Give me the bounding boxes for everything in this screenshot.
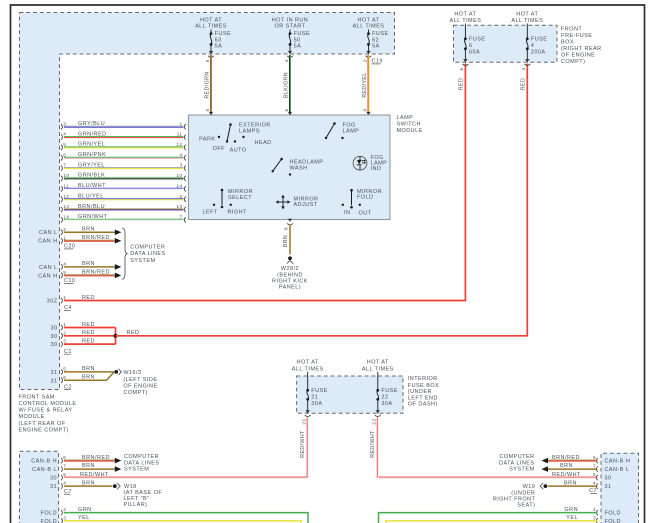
svg-text:LAMPS: LAMPS: [239, 129, 260, 135]
svg-text:SELECT: SELECT: [228, 195, 252, 201]
svg-text:ADJUST: ADJUST: [294, 202, 318, 208]
svg-text:OR START: OR START: [275, 24, 306, 30]
svg-text:4: 4: [521, 67, 526, 70]
wire BRN/RED CAN-B H pin 6 (left): [31, 455, 121, 465]
svg-text:11: 11: [177, 132, 183, 137]
svg-text:7: 7: [63, 464, 66, 469]
svg-text:CAN-B L: CAN-B L: [605, 467, 630, 473]
module FRONT SAM control module w/ fuse & relay module (dashed box): [20, 13, 395, 390]
svg-text:6: 6: [63, 375, 66, 380]
module U1 lamp switch module: [189, 115, 391, 220]
svg-text:RED: RED: [520, 78, 526, 90]
svg-text:BRN: BRN: [82, 227, 95, 233]
ground W19: [493, 483, 547, 509]
module left body control (dashed, bottom left): [20, 451, 59, 523]
pin 22 interior fuse box output connector: [372, 415, 381, 424]
wire BRN circuit 31 pin 4 to ground W18: [50, 480, 112, 490]
fuse 50 (5A) in SAM strip: [272, 18, 310, 54]
svg-text:OF DASH): OF DASH): [408, 401, 438, 407]
wire RED circuit 30 pin 3: [50, 338, 115, 348]
svg-text:5: 5: [205, 108, 210, 111]
svg-text:30A: 30A: [381, 401, 392, 407]
svg-text:COMPT): COMPT): [123, 390, 147, 396]
svg-text:31: 31: [50, 378, 57, 384]
svg-text:6: 6: [459, 67, 464, 70]
svg-text:5A: 5A: [372, 44, 380, 50]
svg-text:W16/3: W16/3: [123, 370, 141, 376]
svg-text:(RIGHT REAR: (RIGHT REAR: [561, 46, 602, 52]
wire GRN FOLD pin 4 (left): [41, 507, 308, 523]
svg-text:8: 8: [284, 227, 289, 230]
svg-text:6: 6: [284, 108, 289, 111]
svg-text:6: 6: [63, 152, 66, 157]
svg-text:60A: 60A: [469, 49, 480, 55]
svg-text:FUSE: FUSE: [294, 31, 310, 37]
wire GRN FOLD pin 4 (right): [379, 507, 621, 523]
pin 21 interior fuse box output connector: [302, 415, 311, 424]
svg-text:21: 21: [302, 418, 307, 424]
wire GRN/YEL SAM pin 5 to lamp switch module pin 12: [61, 142, 186, 150]
svg-text:COMPUTER: COMPUTER: [130, 245, 165, 251]
wire RED/GRN from SAM fuse to lamp switch module: [204, 55, 211, 115]
svg-text:63: 63: [215, 37, 222, 43]
wire GRN/RED SAM pin 4 to lamp switch module pin 11: [61, 131, 186, 139]
svg-text:BRN: BRN: [560, 463, 573, 469]
fuse 4 (200A) front pre-fuse box: [511, 11, 547, 62]
svg-text:MODULE: MODULE: [19, 414, 45, 420]
connector C7 label (left): [64, 489, 72, 495]
svg-text:4: 4: [531, 43, 535, 49]
svg-text:RED/WHT: RED/WHT: [80, 472, 109, 478]
pin 9 lamp switch module top entry: [362, 108, 370, 115]
svg-text:FUSE: FUSE: [215, 31, 231, 37]
pin 5 lamp switch module top entry: [205, 108, 213, 115]
wire BRN lamp switch module to ground W28/2: [283, 225, 290, 255]
svg-text:BRN: BRN: [283, 235, 289, 247]
switch HEADLAMP WASH: [272, 158, 324, 176]
label COMPUTER DATA LINES SYSTEM (bottom left): [124, 454, 159, 472]
wire BRN circuit 31 pin 6 to ground W16/3: [50, 372, 113, 384]
svg-text:ALL TIMES: ALL TIMES: [353, 24, 385, 30]
svg-text:5: 5: [63, 367, 66, 372]
svg-text:W/ FUSE & RELAY: W/ FUSE & RELAY: [19, 408, 73, 414]
wire GRY/YEL SAM pin 7 to lamp switch module pin 3: [61, 162, 186, 170]
svg-text:SYSTEM: SYSTEM: [509, 466, 534, 472]
svg-text:FOLD: FOLD: [605, 511, 621, 517]
svg-text:OF ENGINE: OF ENGINE: [561, 52, 595, 58]
indicator FOG LAMP IND (LED): [353, 155, 387, 172]
ground W28/2: [272, 256, 308, 290]
svg-text:GRN/PNK: GRN/PNK: [78, 152, 106, 158]
wire BRN CAN L pin 4: [39, 261, 121, 271]
wire RED circuit 30 to front pre-fuse box fuse 4: [116, 64, 528, 337]
svg-text:COMPUTER: COMPUTER: [124, 454, 159, 460]
svg-text:CAN H: CAN H: [38, 239, 57, 245]
svg-text:CAN-B L: CAN-B L: [32, 467, 57, 473]
svg-text:FOG: FOG: [343, 122, 356, 128]
svg-text:10: 10: [176, 173, 182, 178]
svg-text:3: 3: [63, 516, 66, 521]
svg-text:12: 12: [63, 194, 69, 199]
svg-text:21: 21: [311, 394, 318, 400]
svg-text:6: 6: [593, 455, 596, 460]
svg-text:1: 1: [63, 235, 66, 240]
switch FOG LAMP: [325, 122, 359, 139]
svg-text:BRN/BLU: BRN/BLU: [78, 204, 105, 210]
svg-text:11: 11: [63, 183, 69, 188]
wire BRN CAN L pin 2: [39, 227, 121, 237]
fuse 63 (5A) in SAM strip: [195, 18, 231, 54]
svg-text:3: 3: [179, 163, 182, 168]
svg-text:CAN-B H: CAN-B H: [605, 459, 631, 465]
fuse 62 (5A) in SAM strip: [353, 18, 389, 54]
svg-text:5: 5: [63, 142, 66, 147]
junction node 30: [113, 334, 117, 338]
svg-text:INTERIOR: INTERIOR: [408, 376, 438, 382]
pin 8 lamp switch module ground output: [284, 219, 293, 230]
wire BRN CAN-B L pin 7 (right): [542, 463, 630, 473]
svg-text:BRN/RED: BRN/RED: [82, 270, 110, 276]
wire BRN circuit 31 pin 4 to ground W19: [548, 480, 612, 490]
fuse 22 (30A) interior fuse box: [362, 360, 398, 414]
svg-text:HOT IN RUN: HOT IN RUN: [272, 18, 308, 24]
svg-text:30: 30: [50, 476, 57, 482]
svg-text:HEAD: HEAD: [255, 140, 272, 146]
wire RED/YEL from SAM fuse to lamp switch module: [362, 55, 369, 115]
svg-text:BRN/RED: BRN/RED: [82, 455, 110, 461]
svg-text:5A: 5A: [294, 44, 302, 50]
svg-text:FUSE: FUSE: [469, 36, 485, 42]
svg-text:GRN/RED: GRN/RED: [78, 131, 107, 137]
svg-text:PRE-FUSE: PRE-FUSE: [561, 33, 592, 39]
svg-text:BLK/GRN: BLK/GRN: [283, 72, 289, 98]
svg-text:RIGHT: RIGHT: [228, 210, 248, 216]
svg-text:BLU/YEL: BLU/YEL: [78, 194, 104, 200]
pin 6 lamp switch module top entry: [284, 108, 292, 115]
svg-text:PARK: PARK: [199, 137, 215, 143]
svg-text:(LEFT REAR OF: (LEFT REAR OF: [19, 421, 66, 427]
svg-text:OF ENGINE: OF ENGINE: [123, 383, 157, 389]
svg-text:BLU/WHT: BLU/WHT: [78, 183, 106, 189]
label FRONT PRE-FUSE BOX: [561, 26, 602, 65]
svg-text:RED/GRN: RED/GRN: [204, 71, 210, 98]
svg-text:RED/YEL: RED/YEL: [362, 72, 368, 97]
svg-text:5: 5: [63, 472, 66, 477]
connector C2 label: [64, 384, 72, 390]
svg-text:2: 2: [63, 227, 66, 232]
svg-text:FUSE: FUSE: [311, 388, 327, 394]
svg-text:RIGHT FRONT: RIGHT FRONT: [493, 497, 536, 503]
svg-text:62: 62: [372, 37, 379, 43]
svg-text:FRONT: FRONT: [561, 26, 582, 32]
pin 5 SAM fuse 63 output connector: [205, 56, 214, 62]
svg-text:FRONT SAM: FRONT SAM: [19, 394, 55, 400]
svg-text:12: 12: [176, 142, 182, 147]
label FRONT SAM CONTROL MODULE: [19, 394, 77, 433]
wire YEL FOLD pin 3 (left): [41, 515, 301, 523]
svg-text:HOT AT: HOT AT: [454, 11, 476, 17]
label INTERIOR FUSE BOX: [408, 376, 439, 407]
svg-text:GRN/YEL: GRN/YEL: [78, 142, 105, 148]
label LAMP SWITCH MODULE: [397, 115, 423, 134]
wire BRN/RED CAN H pin 5: [38, 270, 121, 280]
svg-text:CAN L: CAN L: [39, 265, 57, 271]
wire RED/WHT from fuse 22 to right body module pin 30: [370, 418, 597, 479]
svg-text:6: 6: [469, 43, 473, 49]
pin 4 pre-fuse box output connector: [521, 64, 530, 70]
svg-text:30A: 30A: [311, 401, 322, 407]
svg-text:4: 4: [284, 59, 289, 62]
svg-text:30: 30: [50, 342, 57, 348]
svg-text:BOX: BOX: [561, 39, 574, 45]
svg-text:3: 3: [63, 339, 66, 344]
svg-text:4: 4: [179, 152, 182, 157]
svg-text:FUSE: FUSE: [531, 36, 547, 42]
ground W16/3: [114, 369, 157, 396]
switch MIRROR SELECT (LEFT/RIGHT): [203, 189, 254, 216]
wire GRY/BLU SAM pin 3 to lamp switch module pin 1: [61, 121, 186, 129]
connector C4 label: [64, 305, 72, 311]
svg-text:DATA LINES: DATA LINES: [130, 251, 165, 257]
svg-text:COMPT): COMPT): [561, 59, 585, 65]
svg-text:ALL TIMES: ALL TIMES: [449, 18, 481, 24]
module interior fuse box (dashed): [297, 376, 403, 413]
svg-text:5: 5: [205, 59, 210, 62]
wire BLK/GRN from SAM fuse to lamp switch module: [283, 55, 290, 115]
svg-text:HOT AT: HOT AT: [297, 360, 319, 366]
svg-text:CAN-B H: CAN-B H: [31, 459, 57, 465]
svg-text:CONTROL MODULE: CONTROL MODULE: [19, 401, 77, 407]
module front pre-fuse box (dashed): [454, 25, 558, 62]
svg-text:5A: 5A: [215, 44, 223, 50]
wire GRN/PNK SAM pin 6 to lamp switch module pin 4: [61, 152, 186, 160]
svg-text:ALL TIMES: ALL TIMES: [292, 366, 324, 372]
svg-text:FOLD: FOLD: [41, 511, 57, 517]
label COMPUTER DATA LINES SYSTEM (bottom right): [499, 454, 534, 472]
wire BRN CAN-B L pin 7 (left): [32, 463, 121, 473]
wire RED circuit 30Z pin 1 from SAM to front pre-fuse box fuse 6: [47, 64, 466, 305]
svg-text:LAMP: LAMP: [343, 129, 360, 135]
svg-text:BRN: BRN: [82, 463, 95, 469]
module right body control (dashed, bottom right): [601, 453, 639, 523]
wire GRN/WHT SAM pin 14 to lamp switch module pin 7: [61, 214, 186, 222]
brace computer data lines system: [122, 228, 128, 279]
svg-text:4: 4: [593, 507, 596, 512]
svg-text:2: 2: [63, 330, 66, 335]
wire RED/WHT from fuse 21 to left body module pin 30: [64, 418, 308, 479]
svg-text:PANEL): PANEL): [279, 284, 301, 290]
wire junction 30 bus: [115, 328, 117, 345]
svg-text:RED/WHT: RED/WHT: [300, 430, 306, 458]
svg-text:BRN/RED: BRN/RED: [82, 235, 110, 241]
svg-text:PILLAR): PILLAR): [124, 502, 148, 508]
svg-text:31: 31: [50, 370, 57, 376]
svg-text:COMPUTER: COMPUTER: [499, 454, 534, 460]
svg-text:FUSE BOX: FUSE BOX: [408, 383, 439, 389]
svg-text:IN: IN: [344, 210, 350, 216]
svg-text:IND: IND: [371, 166, 382, 172]
wire BLU/WHT SAM pin 11 to lamp switch module pin 14: [61, 183, 186, 191]
svg-text:OUT: OUT: [359, 210, 372, 216]
connector C10 label: [64, 278, 75, 284]
svg-text:ALL TIMES: ALL TIMES: [511, 18, 543, 24]
svg-text:1: 1: [63, 322, 66, 327]
svg-text:10: 10: [63, 173, 69, 178]
svg-text:BRN/RED: BRN/RED: [552, 455, 580, 461]
wire BLU/YEL SAM pin 12 to lamp switch module pin 2: [61, 194, 186, 202]
svg-text:14: 14: [176, 183, 182, 188]
svg-text:13: 13: [63, 204, 69, 209]
svg-text:4: 4: [63, 507, 66, 512]
svg-text:LAMP: LAMP: [397, 115, 414, 121]
svg-text:FOLD: FOLD: [357, 195, 373, 201]
wire GRN/BLK SAM pin 10 to lamp switch module pin 10: [61, 173, 186, 181]
svg-text:BRN: BRN: [82, 480, 95, 486]
svg-text:HOT AT: HOT AT: [357, 18, 379, 24]
svg-text:LEFT END: LEFT END: [408, 395, 438, 401]
svg-text:1: 1: [63, 295, 66, 300]
svg-text:RED: RED: [458, 78, 464, 90]
svg-text:ENGINE COMPT): ENGINE COMPT): [19, 427, 69, 433]
svg-text:22: 22: [381, 394, 388, 400]
svg-text:OFF: OFF: [213, 146, 226, 152]
svg-text:31: 31: [605, 484, 612, 490]
label RED on fuse 6 wire: [458, 78, 464, 90]
svg-text:FUSE: FUSE: [381, 388, 397, 394]
svg-text:4: 4: [593, 481, 596, 486]
svg-text:5: 5: [63, 270, 66, 275]
fuse 6 (60A) front pre-fuse box: [449, 11, 485, 62]
fuse 21 (30A) interior fuse box: [292, 360, 328, 414]
svg-text:WASH: WASH: [290, 165, 308, 171]
svg-text:1: 1: [179, 121, 182, 126]
svg-text:BRN: BRN: [82, 261, 95, 267]
svg-text:30: 30: [50, 334, 57, 340]
svg-text:4: 4: [63, 262, 66, 267]
svg-text:MODULE: MODULE: [397, 128, 423, 134]
svg-text:FOLD: FOLD: [41, 519, 57, 523]
connector C7 label (right): [589, 488, 597, 494]
svg-text:GRN/WHT: GRN/WHT: [78, 214, 108, 220]
svg-text:30: 30: [50, 326, 57, 332]
switch MIRROR FOLD (IN/OUT): [342, 189, 382, 217]
svg-text:13: 13: [176, 204, 182, 209]
svg-text:3: 3: [63, 121, 66, 126]
svg-text:HOT AT: HOT AT: [367, 360, 389, 366]
wire RED circuit 30 pin 1: [50, 322, 115, 332]
svg-text:HOT AT: HOT AT: [516, 11, 538, 17]
svg-text:RED/WHT: RED/WHT: [370, 430, 376, 458]
wire YEL FOLD pin 3 (right): [386, 515, 621, 523]
wire RED circuit 30 pin 2: [50, 330, 115, 340]
pin 5 circuit 30 right body module: [552, 472, 612, 482]
pin 2 SAM fuse 62 output connector: [362, 56, 371, 62]
wire BRN/RED CAN H pin 1: [38, 235, 121, 245]
svg-text:200A: 200A: [531, 49, 546, 55]
label COMPUTER DATA LINES SYSTEM (upper): [130, 245, 165, 264]
svg-text:50: 50: [294, 37, 301, 43]
svg-text:BRN: BRN: [564, 480, 577, 486]
svg-text:SYSTEM: SYSTEM: [124, 466, 149, 472]
wire BRN circuit 31 pin 5 to ground W16/3: [50, 366, 113, 376]
svg-text:ALL TIMES: ALL TIMES: [362, 366, 394, 372]
svg-text:SYSTEM: SYSTEM: [130, 258, 155, 264]
svg-text:RED/WHT: RED/WHT: [552, 472, 581, 478]
svg-text:CAN H: CAN H: [38, 273, 57, 279]
svg-text:3: 3: [593, 516, 596, 521]
switch MIRROR ADJUST (4-way): [276, 195, 319, 210]
label RED on fuse 4 wire: [520, 78, 526, 90]
svg-text:HOT AT: HOT AT: [200, 18, 222, 24]
svg-text:2: 2: [179, 194, 182, 199]
svg-text:W19: W19: [523, 484, 536, 490]
pin 6 pre-fuse box output connector: [459, 64, 468, 70]
svg-text:(LEFT SIDE: (LEFT SIDE: [123, 377, 157, 383]
svg-text:4: 4: [63, 481, 66, 486]
svg-text:(UNDER: (UNDER: [511, 490, 535, 496]
svg-text:GRY/YEL: GRY/YEL: [78, 162, 105, 168]
connector C20 label: [64, 244, 75, 250]
pin 5 circuit 30 left body module: [50, 472, 109, 482]
svg-text:SEAT): SEAT): [517, 503, 535, 509]
svg-text:FOLD: FOLD: [605, 519, 621, 523]
connector C1 label: [64, 349, 72, 355]
svg-text:5: 5: [593, 472, 596, 477]
svg-text:LEFT: LEFT: [203, 209, 218, 215]
ground W18: [113, 483, 162, 508]
svg-text:ALL TIMES: ALL TIMES: [195, 24, 227, 30]
svg-text:SWITCH: SWITCH: [397, 121, 421, 127]
svg-text:6: 6: [63, 455, 66, 460]
svg-text:W28/2: W28/2: [281, 266, 299, 272]
svg-text:GRN/BLK: GRN/BLK: [78, 173, 105, 179]
svg-text:CAN L: CAN L: [39, 230, 57, 236]
svg-text:31: 31: [50, 484, 57, 490]
svg-text:7: 7: [593, 464, 596, 469]
svg-text:FUSE: FUSE: [372, 31, 388, 37]
svg-text:7: 7: [63, 163, 66, 168]
connector C19 label: [372, 59, 383, 65]
svg-text:7: 7: [179, 214, 182, 219]
svg-text:22: 22: [372, 418, 377, 424]
svg-text:14: 14: [63, 214, 69, 219]
svg-text:AUTO: AUTO: [230, 148, 247, 154]
wire BRN/RED CAN-B H pin 6 (right): [542, 455, 631, 465]
svg-text:30: 30: [605, 476, 612, 482]
svg-text:9: 9: [362, 108, 367, 111]
switch EXTERIOR LAMPS (PARK/OFF/AUTO/HEAD): [199, 123, 271, 154]
pin 4 SAM fuse 50 output connector: [284, 56, 293, 62]
svg-text:30Z: 30Z: [47, 299, 58, 305]
svg-text:2: 2: [362, 59, 367, 62]
svg-text:(UNDER: (UNDER: [408, 389, 432, 395]
wire BRN/BLU SAM pin 13 to lamp switch module pin 13: [61, 204, 186, 212]
svg-text:GRY/BLU: GRY/BLU: [78, 121, 105, 127]
svg-text:4: 4: [63, 132, 66, 137]
